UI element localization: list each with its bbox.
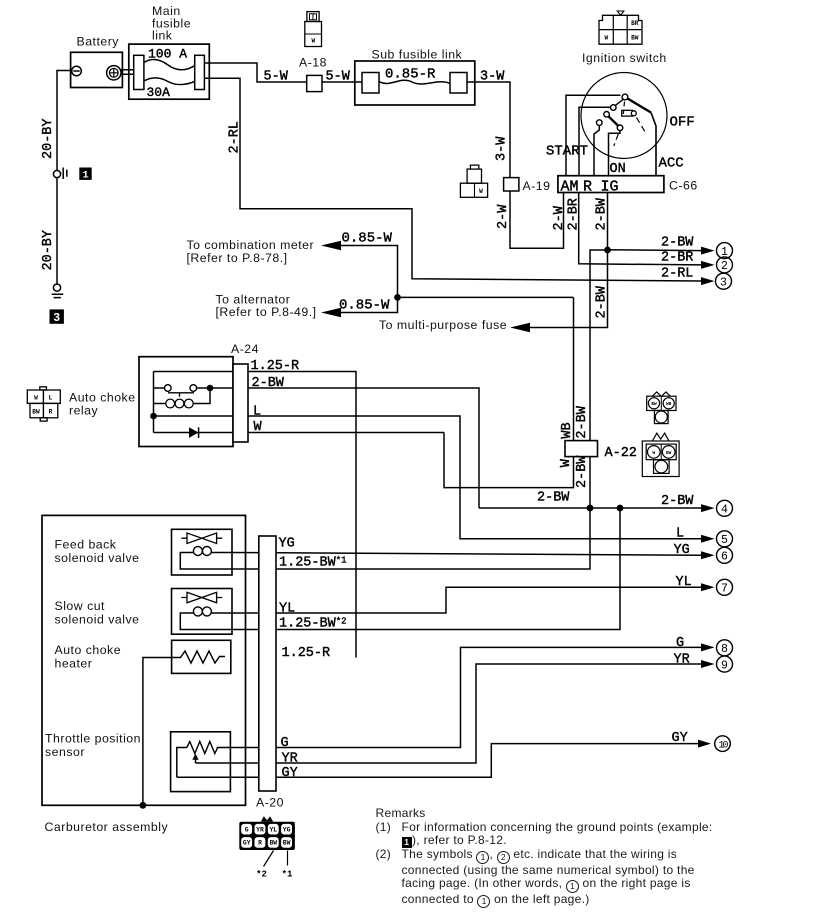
wire 2-BR from R terminal to node 2 [579, 193, 701, 265]
junction dot relay 2-BW coil [207, 385, 214, 392]
svg-text:1: 1 [721, 246, 728, 259]
connector A-22 box [565, 441, 598, 457]
sub fusible left pad [362, 73, 379, 94]
svg-text:7: 7 [721, 583, 728, 596]
svg-text:3: 3 [53, 312, 60, 325]
svg-text:BW: BW [651, 402, 657, 407]
svg-text:0.85-R: 0.85-R [385, 67, 436, 83]
relay wire L [154, 416, 702, 539]
arrow node 5 [701, 535, 715, 543]
svg-text:W: W [559, 458, 574, 467]
svg-text:2-RL: 2-RL [661, 267, 693, 282]
svg-text:W: W [479, 188, 483, 195]
svg-text:20-BY: 20-BY [41, 118, 56, 159]
contact circle right [190, 385, 197, 392]
TPS wiper arrow [192, 754, 198, 760]
svg-text:To multi-purpose fuse: To multi-purpose fuse [379, 318, 507, 332]
movable link bar c2 to c4 [608, 116, 618, 126]
connector icon A-18 (above wire) [307, 12, 319, 22]
battery negative terminal [72, 66, 82, 76]
sub fusible right pad [450, 73, 467, 94]
node ground point 3 circle [53, 284, 60, 291]
switch rotor pivot [622, 94, 628, 100]
junction dot 0.85-W [394, 294, 401, 301]
wire 2-BW jog down to A-22 [590, 250, 608, 508]
ground symbol 3 bars [52, 294, 64, 297]
svg-text:YG: YG [674, 543, 690, 558]
svg-text:IG: IG [601, 178, 619, 195]
svg-text:BR: BR [631, 20, 639, 27]
svg-text:W: W [652, 451, 655, 456]
wire R contact feed [579, 107, 610, 176]
contact c3 [597, 120, 603, 126]
main fusible link box [129, 44, 210, 99]
wire 2-BW below A-22 to node 4 line [479, 507, 701, 509]
svg-text:L: L [676, 527, 684, 542]
slow cut solenoid valve box [172, 589, 233, 635]
ground marker 1 black square [79, 168, 91, 180]
svg-text:OFF: OFF [670, 114, 695, 130]
switch small rect contact [622, 110, 633, 116]
svg-text:6: 6 [721, 551, 728, 564]
svg-text:2-BW: 2-BW [575, 405, 590, 438]
svg-text:YL: YL [676, 575, 692, 590]
svg-text:2-W: 2-W [496, 204, 511, 229]
leader line star1 [287, 851, 289, 866]
auto choke heater box [172, 640, 231, 673]
svg-text:BW: BW [32, 408, 40, 415]
arrow node 3 [701, 277, 715, 285]
relay contact left circle [154, 387, 165, 389]
wire YR [196, 664, 702, 763]
TPS left lead to GY [177, 748, 187, 778]
wire pivot to contact c1 [615, 99, 623, 105]
wire 2-BW branch right to node 1 [608, 249, 702, 252]
carburetor assembly box [42, 515, 246, 805]
wire 2-BW from IG terminal down to multi-purpose fuse arrow [530, 193, 608, 328]
svg-text:ON: ON [610, 162, 626, 177]
svg-text:3: 3 [720, 276, 727, 289]
svg-text:heater: heater [55, 656, 93, 670]
wire 3-W sub fusible link to A-19 [467, 82, 510, 178]
dashed travel from rect to acc [637, 118, 647, 134]
svg-text:Battery: Battery [77, 35, 120, 49]
dashed travel below pivot [623, 102, 624, 115]
ground body symbol at node 1 [63, 168, 67, 180]
svg-text:Slow cut: Slow cut [55, 599, 106, 613]
fusible link left bar [134, 55, 144, 89]
svg-text:link: link [152, 29, 173, 43]
svg-text:AM: AM [561, 178, 579, 195]
arrow node 1 [701, 247, 715, 255]
svg-text:2-BR: 2-BR [661, 251, 693, 266]
leader line star2 [264, 851, 274, 867]
arrow node 9 [701, 660, 715, 668]
TPS resistor zigzag [187, 742, 218, 754]
connector icon A-19 (left of wire) [470, 165, 478, 169]
svg-text:BW: BW [666, 451, 672, 456]
svg-text:20-BY: 20-BY [41, 230, 56, 271]
wire coil left leg [154, 403, 166, 405]
circled 2 [717, 257, 733, 273]
connector A-19 square on wire [504, 178, 519, 191]
svg-text:W: W [254, 420, 263, 435]
ground marker 3 black square [50, 309, 64, 323]
circled 1 [717, 243, 733, 259]
svg-text:30A: 30A [147, 85, 171, 100]
junction dot A-22 2-BW [587, 505, 594, 512]
contact c4 [617, 125, 623, 131]
svg-text:1.25-R: 1.25-R [282, 646, 331, 661]
fusible link right bar [195, 55, 205, 89]
svg-text:W: W [34, 394, 38, 401]
svg-text:1.25-R: 1.25-R [251, 359, 300, 374]
relay internal left rail [153, 372, 155, 433]
contact bridge bar [168, 393, 194, 397]
svg-text:G: G [676, 636, 684, 651]
svg-text:A-20: A-20 [256, 796, 284, 810]
svg-text:[Refer to P.8-49.]: [Refer to P.8-49.] [216, 305, 317, 319]
svg-text:Throttle position: Throttle position [45, 732, 141, 746]
svg-text:W: W [311, 38, 315, 45]
svg-text:2-BW: 2-BW [537, 491, 570, 506]
connector icon ignition switch [599, 15, 642, 44]
remarks text block [376, 807, 721, 908]
svg-text:2-BW: 2-BW [595, 285, 610, 318]
svg-text:2-BW: 2-BW [252, 376, 285, 391]
wire YL [232, 587, 701, 613]
svg-text:YL: YL [269, 827, 277, 834]
svg-text:YL: YL [279, 602, 295, 617]
connector icon auto choke relay [27, 387, 60, 421]
slow cut valve coil [193, 607, 202, 616]
circled 10 [715, 736, 731, 752]
battery B1 box [71, 52, 123, 87]
svg-text:A-18: A-18 [299, 55, 327, 69]
junction dot BW star2 branch [617, 505, 624, 512]
wire 5-W fusible link to A-18 to sub fusible link [204, 63, 362, 82]
svg-text:WB: WB [560, 422, 575, 438]
fuse element 100A wavy [144, 59, 195, 69]
svg-text:100 A: 100 A [148, 47, 187, 62]
wire 20-BY lower [56, 178, 58, 284]
svg-text:solenoid valve: solenoid valve [55, 612, 140, 626]
svg-text:YG: YG [279, 537, 295, 552]
wire YG [232, 553, 701, 556]
arrow node 2 [701, 261, 715, 269]
relay wire W with diode [154, 432, 445, 434]
svg-text:GY: GY [672, 731, 688, 746]
arrowhead alternator [321, 308, 341, 318]
auto choke relay box [139, 357, 233, 447]
node ground point 1 circle [53, 170, 60, 177]
svg-text:8: 8 [721, 643, 728, 656]
svg-text:START: START [546, 144, 588, 160]
svg-text:R: R [583, 178, 592, 195]
svg-text:2-RL: 2-RL [228, 121, 243, 153]
connector icon near A-22 lower (A-22 mate) [642, 433, 679, 476]
svg-text:1: 1 [82, 170, 88, 182]
relay coil loops [166, 399, 175, 408]
wire coil right leg [193, 388, 210, 404]
slow cut valve butterfly symbol [181, 597, 222, 599]
svg-text:Carburetor assembly: Carburetor assembly [45, 820, 169, 834]
sub fuse wavy element [379, 80, 450, 84]
svg-text:BW: BW [283, 840, 291, 847]
dashed travel below c4 [614, 134, 619, 146]
contact circle left [165, 385, 172, 392]
circled 5 [717, 531, 733, 547]
contact c1 [611, 105, 617, 111]
heater resistor R zigzag [177, 651, 225, 663]
svg-text:GY: GY [243, 840, 251, 847]
wire ON contact to IG terminal [609, 131, 621, 176]
circled 7 [717, 579, 733, 595]
svg-text:[Refer to P.8-78.]: [Refer to P.8-78.] [187, 251, 288, 265]
arrowhead multi-purpose fuse [510, 323, 530, 333]
wire AM feed into switch [566, 95, 621, 176]
svg-text:BW: BW [631, 34, 639, 41]
svg-text:2-W: 2-W [552, 205, 567, 230]
throttle position sensor box [171, 732, 231, 792]
svg-text:YR: YR [282, 751, 298, 766]
svg-text:solenoid valve: solenoid valve [55, 551, 140, 565]
connector A-20 bar [259, 536, 276, 791]
wire contact c3 down to C-66 [594, 125, 599, 176]
svg-text:2-BW: 2-BW [595, 197, 610, 230]
svg-text:4: 4 [721, 503, 728, 516]
svg-text:2-BW: 2-BW [661, 494, 694, 509]
svg-text:0.85-W: 0.85-W [342, 231, 393, 247]
wire 1.25-BW*2 [232, 508, 620, 630]
svg-text:ACC: ACC [659, 155, 684, 171]
svg-text:G: G [245, 827, 249, 834]
svg-text:Sub fusible link: Sub fusible link [372, 48, 463, 62]
svg-text:YG: YG [283, 827, 291, 834]
svg-text:BW: BW [269, 840, 277, 847]
circled 3 [716, 273, 732, 289]
svg-text:GY: GY [282, 766, 298, 781]
svg-text:Feed back: Feed back [55, 538, 117, 552]
contact c2 [604, 112, 610, 118]
arrowhead combination meter [321, 241, 341, 251]
svg-text:YR: YR [256, 827, 264, 834]
wire 0.85-W junction to WB wire [398, 296, 574, 298]
wire battery minus to 20-BY [57, 71, 72, 171]
svg-text:G: G [281, 736, 289, 751]
junction dot IG 2-BW [604, 247, 611, 254]
battery positive terminal [107, 66, 121, 80]
diode D1 [189, 427, 198, 438]
fuse element 30A wavy [144, 78, 195, 85]
arrow node 4 [701, 504, 715, 512]
wire W below A-22 to relay W line [444, 433, 574, 488]
svg-text:5-W: 5-W [264, 70, 289, 85]
svg-text:2: 2 [721, 260, 728, 273]
connector icon near A-22 upper [647, 392, 676, 424]
wire ACC from rotor arm [628, 99, 652, 113]
feed back solenoid valve box [172, 529, 233, 575]
circled 6 [717, 547, 733, 563]
wire 2-W A-19 down and to AM terminal [510, 191, 564, 248]
svg-text:R: R [258, 840, 262, 847]
svg-text:Ignition switch: Ignition switch [582, 51, 667, 65]
svg-text:Auto choke: Auto choke [69, 390, 136, 404]
arrow node 8 [701, 643, 715, 651]
wire battery plus to fusible link (double) [121, 70, 134, 74]
svg-text:A-19: A-19 [523, 179, 551, 193]
svg-text:sensor: sensor [45, 745, 85, 759]
svg-text:5: 5 [721, 534, 728, 547]
svg-text:0.85-W: 0.85-W [339, 298, 390, 314]
svg-text:To combination meter: To combination meter [187, 238, 315, 252]
wire GY [177, 744, 698, 778]
junction dot relay L [150, 413, 157, 420]
connector A-24 bar [233, 364, 248, 442]
svg-text:*2: *2 [256, 870, 267, 880]
wire 2-RL down from fusible link [204, 78, 701, 281]
wire 1.25-BW*1 [232, 508, 590, 569]
C-66 connector box [558, 176, 664, 193]
arrow node 10 [698, 740, 711, 748]
ignition switch circle [581, 73, 667, 159]
svg-text:WB: WB [666, 402, 672, 407]
svg-text:2-BW: 2-BW [661, 236, 694, 251]
wire 0.85-W to combination meter [341, 246, 398, 313]
svg-text:A-24: A-24 [231, 342, 259, 356]
junction dot carb ground [140, 802, 147, 809]
arrow node 6 [701, 551, 715, 559]
svg-text:3-W: 3-W [480, 70, 505, 85]
heater ground wire to carburetor body [143, 658, 177, 806]
svg-text:2-BR: 2-BR [567, 198, 582, 230]
sub fusible link box [355, 61, 475, 105]
svg-text:L: L [253, 405, 261, 420]
svg-text:2-BW: 2-BW [575, 455, 590, 488]
svg-text:9: 9 [721, 659, 728, 672]
connector icon A-20 mate (black grid) [239, 816, 295, 866]
svg-text:C-66: C-66 [669, 179, 698, 193]
svg-text:A-22: A-22 [605, 446, 637, 461]
contact c5 [631, 111, 636, 116]
svg-text:5-W: 5-W [326, 70, 351, 85]
relay wire contact right to 2-BW [197, 388, 479, 508]
circled 9 [717, 656, 733, 672]
svg-text:R: R [49, 408, 53, 415]
circled 4 [717, 500, 733, 516]
circled 8 [717, 640, 733, 656]
relay wire 1.25-R [154, 372, 357, 658]
svg-text:W: W [604, 34, 608, 41]
svg-text:relay: relay [69, 403, 99, 417]
svg-text:*1: *1 [282, 870, 293, 880]
svg-text:3-W: 3-W [495, 136, 510, 161]
arrow node 7 [701, 583, 715, 591]
svg-text:YR: YR [674, 653, 690, 668]
wire WB down to A-22 [573, 297, 575, 456]
svg-text:L: L [49, 394, 53, 401]
feed back valve coil [193, 547, 202, 556]
svg-text:Auto choke: Auto choke [55, 643, 122, 657]
feed back valve butterfly symbol [181, 537, 222, 539]
connector A-18 square on wire [307, 75, 322, 91]
wire G [217, 647, 701, 747]
